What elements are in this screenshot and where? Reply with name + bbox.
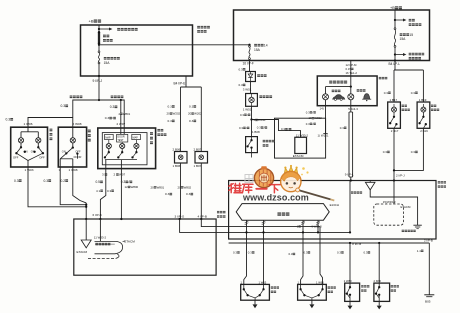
node W2-p2 <box>262 231 264 233</box>
svg-text:4 1: 4 1 <box>96 189 101 193</box>
pin labels door sw A <box>241 280 243 284</box>
node M1 pin4 <box>200 218 202 220</box>
pin labels 12 I/P-M etc <box>346 63 358 67</box>
pin label 8 I/P-B <box>352 242 361 246</box>
label instrument panel <box>379 77 388 79</box>
pin label 4 I/P-B <box>198 214 207 218</box>
node M1 pin6 <box>99 218 101 220</box>
lamp unit trunk <box>246 94 258 107</box>
pin label 14 <box>320 107 324 111</box>
label 1 conn <box>297 224 301 228</box>
label 9 W33-3 <box>312 224 323 228</box>
wire to door sw B left <box>301 239 303 284</box>
wire L3 exit left <box>105 160 107 169</box>
svg-text:1 W03: 1 W03 <box>25 168 34 172</box>
svg-text:0.3: 0.3 <box>304 251 308 255</box>
svg-text:0.3: 0.3 <box>14 179 19 183</box>
wire to door sw A left <box>244 239 247 284</box>
svg-text:MAP: MAP <box>133 136 139 139</box>
connector unit W33-2 <box>295 137 307 153</box>
node F3 feed <box>120 99 122 101</box>
wire branch to ETACM connector <box>252 119 275 121</box>
svg-text:19: 19 <box>309 116 313 120</box>
label 4 1 blue <box>96 189 103 193</box>
pin label 1 W06 <box>24 122 33 126</box>
door switch unit A (left front) <box>241 284 270 300</box>
svg-text:OFF: OFF <box>75 149 81 153</box>
svg-text:ETACM: ETACM <box>401 205 411 209</box>
ground door D <box>377 301 382 309</box>
label ETACM left <box>77 250 88 254</box>
door switch unit C (left rear) <box>345 283 360 301</box>
labels ON OFF DOOR L2 <box>62 149 66 153</box>
svg-text:MAP: MAP <box>105 136 111 139</box>
wire bus to right box <box>99 44 250 46</box>
pin label 3 I/P-G <box>175 214 185 218</box>
wire luggage sense inside M2 <box>349 181 351 233</box>
svg-text:ON: ON <box>24 150 28 154</box>
wire split to console lamps <box>181 86 202 88</box>
interior lamp triangle M2 <box>369 181 371 183</box>
control module M1 ETACM <box>74 219 216 275</box>
connector hatch p2 <box>262 221 266 225</box>
door switch unit B (right front) <box>298 284 327 300</box>
svg-text:3 W51: 3 W51 <box>243 87 252 91</box>
svg-text:0.3: 0.3 <box>189 105 194 109</box>
fuse F15 tail lamp 15A <box>98 51 100 64</box>
control module M2 (door switch logic box) <box>229 181 436 240</box>
label 1.4 black <box>417 249 424 253</box>
bulb L3a <box>108 140 110 144</box>
pin label 15 W33-3 <box>383 200 396 204</box>
label console <box>157 129 163 132</box>
ground door A <box>253 300 258 308</box>
switch S3b <box>121 149 123 153</box>
switch S1b <box>37 143 39 147</box>
label fuse and relay box <box>197 26 210 29</box>
pin label 2 B19 <box>420 129 428 133</box>
wire to interior control triangle <box>85 219 87 240</box>
node bus-D <box>378 242 380 244</box>
svg-text:www.dzso.com: www.dzso.com <box>242 193 309 203</box>
pin label 9 I/P-J <box>93 79 103 83</box>
label 0.3 blue/yellow branch <box>281 127 291 131</box>
label door D <box>391 285 399 287</box>
node M1 pin3 <box>178 218 180 220</box>
wire merged drop to M1 <box>85 203 87 219</box>
watermark mascot lantern <box>254 166 273 187</box>
node B2 <box>394 53 396 55</box>
svg-text:B05: B05 <box>425 300 431 304</box>
svg-text:12: 12 <box>125 185 129 189</box>
label diode <box>257 74 266 77</box>
svg-text:0.3: 0.3 <box>289 252 293 256</box>
svg-text:15: 15 <box>409 33 413 37</box>
node A3 <box>98 75 100 77</box>
ground G05 <box>424 294 434 296</box>
door switch unit D (right rear) <box>374 283 390 301</box>
wire lamp return bus 1 <box>28 167 86 207</box>
svg-text:0.3: 0.3 <box>240 113 244 117</box>
pin label door sw D <box>374 279 382 283</box>
switch S2 <box>72 143 74 148</box>
wire bracket L3 <box>105 159 137 161</box>
switch S3c <box>135 149 137 153</box>
label 0.3 brown/black t4 <box>239 126 249 130</box>
svg-text:0.3: 0.3 <box>340 126 344 130</box>
svg-text:/: / <box>128 180 129 184</box>
wire right branch <box>99 100 124 134</box>
label 0.3 gray h <box>340 126 347 130</box>
wire to door sw B right <box>320 239 323 284</box>
bulb H1 <box>323 94 329 100</box>
svg-text:+B: +B <box>89 19 94 24</box>
wire H left pin down to W151 <box>325 106 327 134</box>
label door C <box>361 285 369 287</box>
wire right cargo lamp down <box>394 128 423 170</box>
diode D1 <box>246 72 256 82</box>
svg-text:11 W33-2: 11 W33-2 <box>94 236 107 240</box>
labels console wires <box>168 105 175 109</box>
svg-text:0.2: 0.2 <box>61 179 66 183</box>
svg-text:0.3: 0.3 <box>233 251 237 255</box>
node B3 <box>394 59 396 61</box>
svg-text:16 I/P-F: 16 I/P-F <box>243 62 254 66</box>
function block interior lamp control <box>95 241 123 253</box>
svg-text:0.3: 0.3 <box>107 189 112 193</box>
pin labels L3 bottom <box>102 173 107 177</box>
wire main feed in J2 <box>394 10 396 28</box>
label dome lamp vertical <box>88 130 91 133</box>
svg-text:15A: 15A <box>254 48 261 52</box>
pin label B4 I/P-E <box>174 82 186 86</box>
wire J2 to luggage lamp <box>350 61 352 77</box>
junction bus door switch (hexagon) <box>236 204 329 221</box>
label 0.3 blue/yellow <box>121 180 132 184</box>
svg-text:W031: W031 <box>258 118 266 122</box>
pin labels 2 B06 2 B07 <box>173 147 181 151</box>
node bus-C <box>349 242 351 244</box>
node cargo merge <box>393 169 395 171</box>
svg-text:W800: W800 <box>131 185 139 189</box>
wire L3 mid to M1 <box>120 169 122 219</box>
label dome lamp vertical b <box>150 132 153 135</box>
label 0.3 brown far-left <box>6 118 14 122</box>
wire bus to ground <box>428 243 430 295</box>
svg-text:20: 20 <box>188 112 192 116</box>
svg-text:1.4: 1.4 <box>417 249 421 253</box>
pin label 2 I/P-J <box>396 174 405 178</box>
wire H right pin down (twin) <box>350 106 352 112</box>
label trunk lamp switch <box>263 140 275 142</box>
wire trunk switch stub <box>251 153 253 158</box>
svg-text:0.3: 0.3 <box>337 251 341 255</box>
label top right outside <box>438 181 446 183</box>
arrow reference power distribution right <box>395 19 406 22</box>
wire hexagon pin2 down <box>263 220 265 239</box>
wire hexagon pin4 down <box>317 220 319 232</box>
svg-text:ETACM: ETACM <box>124 239 135 243</box>
label door B <box>328 286 336 288</box>
wire trunk lamp down <box>251 106 253 136</box>
label 0.3 blue c <box>186 192 193 196</box>
svg-text:2 I/P-J: 2 I/P-J <box>396 174 405 178</box>
pin label 11 W33-2 <box>94 236 107 240</box>
svg-text:16 TE1-2: 16 TE1-2 <box>346 71 358 75</box>
svg-text:2 W07: 2 W07 <box>117 122 126 126</box>
label trunk lamp <box>259 95 272 98</box>
pin label 3 W51 <box>243 87 252 91</box>
svg-text:0.3: 0.3 <box>239 126 243 130</box>
pin label 6 I/P-B <box>93 213 102 217</box>
svg-text:2 B17: 2 B17 <box>391 129 399 133</box>
lamp-switch unit right cargo lamp <box>417 102 430 128</box>
bulb L3b <box>121 142 123 143</box>
wire L1 to exit <box>16 153 28 160</box>
connector hatch p4 <box>316 221 320 225</box>
wire J1 pin9 down <box>98 76 100 100</box>
wire L2 feed <box>72 127 74 138</box>
wire left branch <box>73 100 99 127</box>
svg-text:B4 I/P-E: B4 I/P-E <box>174 82 186 86</box>
wire to door sw C <box>349 243 351 283</box>
node B1 <box>394 19 396 21</box>
junction box J1 (top-left fuse and relay box) <box>81 25 193 76</box>
svg-text:9 I/P-L: 9 I/P-L <box>345 172 354 176</box>
svg-text:B4 I/P-L: B4 I/P-L <box>389 62 401 66</box>
svg-text:0.3: 0.3 <box>6 118 11 122</box>
bulb L3c <box>135 140 137 144</box>
svg-text:0.3: 0.3 <box>165 192 170 196</box>
svg-text:20: 20 <box>151 185 155 189</box>
wire fuse to node B2 <box>394 47 396 60</box>
labels 0.3 blue feeds <box>384 91 391 95</box>
wire internal split H <box>350 76 352 87</box>
node A2 <box>98 44 100 46</box>
wire B4 I/P-E down <box>185 76 187 87</box>
wire hexagon pin3 down <box>302 220 304 239</box>
pin label 1 W51 <box>243 108 252 112</box>
label left cargo lamp <box>402 105 407 107</box>
svg-text:0.3: 0.3 <box>383 150 388 154</box>
node fuse14 top <box>248 44 250 46</box>
wire H bulbs to exits <box>325 100 327 106</box>
svg-text:0.3: 0.3 <box>411 150 416 154</box>
node bus merge a <box>85 204 87 206</box>
node bus merge b <box>85 206 87 208</box>
pin labels 1 B06 1 B07 <box>173 164 181 168</box>
wire to ETACM label <box>123 240 126 243</box>
label 0.3 brown right <box>110 105 118 109</box>
svg-text:0.3: 0.3 <box>281 127 285 131</box>
svg-text:8 I/P-B: 8 I/P-B <box>352 242 361 246</box>
label 0.3 brown t1 <box>239 67 246 71</box>
svg-text:2 I/P-B: 2 I/P-B <box>424 239 433 243</box>
svg-text:0.3: 0.3 <box>384 91 389 95</box>
svg-text:1 B07: 1 B07 <box>194 164 202 168</box>
inner housing L3 <box>102 133 147 165</box>
svg-text:14: 14 <box>264 43 268 47</box>
label +B power (left) <box>89 19 102 24</box>
label ETACM right <box>401 205 411 209</box>
node A1 <box>98 28 100 30</box>
svg-text:1 W51: 1 W51 <box>243 108 252 112</box>
pin label B4 I/P-L <box>389 62 401 66</box>
label with sunroof <box>70 95 83 98</box>
node split sunroof <box>98 99 100 101</box>
svg-text:0.3: 0.3 <box>239 67 244 71</box>
wire left cargo lamp down <box>393 128 395 180</box>
pin label 9 I/P-L <box>345 172 354 176</box>
logic symbol interior lamp driver <box>81 240 91 248</box>
svg-text:TEST: TEST <box>117 139 124 142</box>
label 0.5 purple <box>96 180 103 184</box>
svg-text:1) W151: 1) W151 <box>318 134 329 138</box>
svg-text:0.3: 0.3 <box>110 105 115 109</box>
svg-text:ETACM: ETACM <box>77 250 88 254</box>
svg-text:OFF: OFF <box>39 156 45 160</box>
svg-text:0.3: 0.3 <box>168 105 173 109</box>
svg-text:1 B08: 1 B08 <box>252 130 260 134</box>
lamp-switch unit left cargo lamp <box>388 102 401 128</box>
label W800 <box>125 185 139 189</box>
svg-text:0.3: 0.3 <box>61 104 66 108</box>
wire diode to trunk lamp <box>250 82 252 94</box>
label 2 W07 <box>117 122 126 126</box>
node M2 pin top <box>350 179 352 181</box>
pin label 16 I/P-F <box>243 62 254 66</box>
node W2-p1 <box>245 231 247 233</box>
pin label 1 W151 <box>318 134 329 138</box>
labels wire colors bottom <box>233 251 240 255</box>
module box M3 ETACM mid <box>275 118 326 158</box>
label 0.2 purple <box>61 179 69 183</box>
svg-text:0.3: 0.3 <box>306 110 310 114</box>
svg-text:1 B06: 1 B06 <box>173 164 181 168</box>
labels H-left wire <box>306 110 316 114</box>
svg-text:2 B07: 2 B07 <box>194 147 202 151</box>
svg-text:0.5: 0.5 <box>96 180 101 184</box>
label overhead interior lamp <box>351 191 362 193</box>
label 2 W031 <box>254 118 266 122</box>
wire main feed in J1 <box>98 25 100 32</box>
node M1 pin5 <box>85 218 87 220</box>
wire to interior control block <box>99 219 101 241</box>
pin labels door sw B <box>298 280 300 284</box>
svg-text:W802: W802 <box>314 116 322 120</box>
wire control block tail <box>116 254 119 259</box>
svg-text:ON: ON <box>31 150 35 154</box>
wire lamp return bus 3 <box>73 167 86 203</box>
label luggage door lamp title <box>329 81 347 84</box>
pin label 11 W33-2 mid <box>296 133 309 137</box>
svg-text:W802: W802 <box>184 185 192 189</box>
node W2-end <box>349 231 351 233</box>
watermark text weiku (vector glyphs) <box>229 183 280 193</box>
wire lamp return bus 2 <box>60 167 86 205</box>
svg-text:W801: W801 <box>123 112 131 116</box>
node W2-p4 <box>317 231 319 233</box>
svg-text:0.3: 0.3 <box>44 179 49 183</box>
svg-text:W202: W202 <box>194 112 202 116</box>
svg-text:2 B19: 2 B19 <box>420 129 428 133</box>
svg-text:ETACM: ETACM <box>293 154 304 158</box>
svg-text:DOOR: DOOR <box>74 155 82 159</box>
svg-text:20: 20 <box>167 112 171 116</box>
wire cargo sense into block <box>393 181 395 205</box>
label 0.3 purple <box>14 179 22 183</box>
ground door C <box>348 301 353 309</box>
svg-text:W801: W801 <box>157 185 165 189</box>
wire L3 left to M1 <box>100 169 105 219</box>
svg-text:15A: 15A <box>104 61 111 65</box>
svg-text:0.3: 0.3 <box>186 192 191 196</box>
svg-text:11 W33-2: 11 W33-2 <box>296 133 309 137</box>
pin label 1 B08 <box>252 130 260 134</box>
wire hexagon pin1 down <box>246 220 248 239</box>
bulb L1b <box>36 138 41 143</box>
svg-text:0.3: 0.3 <box>248 251 252 255</box>
ground chassis M2 <box>413 224 421 226</box>
mode box MAP1 <box>105 134 114 139</box>
svg-text:W202: W202 <box>173 112 181 116</box>
label right cargo lamp <box>431 105 436 107</box>
label 0.3 brown left <box>61 104 69 108</box>
wire second feed to dome lamp 3 <box>120 100 122 134</box>
pin label 2 B17 <box>391 129 399 133</box>
connector hatch p1 <box>245 221 249 225</box>
wire W1 from pin4 I/P-B <box>201 219 320 239</box>
lamp unit L2 (dome lamp) <box>58 127 86 167</box>
label 0.3 brown/black <box>105 116 116 120</box>
arrow reference power distribution <box>99 28 112 31</box>
watermark url <box>242 193 309 203</box>
module dashed block ETACM right <box>374 204 404 225</box>
node W2-p3 <box>302 231 304 233</box>
label door switch <box>277 212 289 215</box>
label 0.3 blue/yellow left <box>257 126 267 130</box>
label B05 <box>425 300 431 304</box>
lamp unit B07 <box>195 152 208 164</box>
svg-text:20: 20 <box>178 185 182 189</box>
svg-text:0.3: 0.3 <box>306 122 310 126</box>
icon car <box>333 95 345 101</box>
pin label 1 W03 <box>25 168 34 172</box>
labels 20W801/W802 <box>151 185 165 189</box>
wire B07 down <box>200 163 202 219</box>
ground door B <box>309 300 314 308</box>
svg-text:4 I/P-B: 4 I/P-B <box>198 214 207 218</box>
pin label IG3-3 <box>348 107 358 111</box>
switch unit trunk lamp switch <box>246 137 258 153</box>
svg-text:2 W08: 2 W08 <box>73 122 82 126</box>
pin label 2 W08 <box>73 122 82 126</box>
wire L3 exit mid <box>120 160 122 169</box>
svg-text:2 B06: 2 B06 <box>173 147 181 151</box>
label 2 conn W801 <box>119 112 131 116</box>
svg-text:OFF: OFF <box>13 156 19 160</box>
fuse F15b 15A <box>394 28 396 48</box>
node trunk junction <box>250 118 252 120</box>
fusible link FL1 <box>98 32 100 43</box>
bulb L2 <box>70 138 75 143</box>
wire W2 from pin3 I/P-G <box>180 219 350 232</box>
wire F14 to J2 bottom <box>249 60 251 61</box>
svg-text:5 IG3-3: 5 IG3-3 <box>348 107 358 111</box>
svg-text:0.3: 0.3 <box>189 119 194 123</box>
wire 16 I/P-F down <box>249 61 251 72</box>
watermark ghost glyph <box>245 175 253 183</box>
